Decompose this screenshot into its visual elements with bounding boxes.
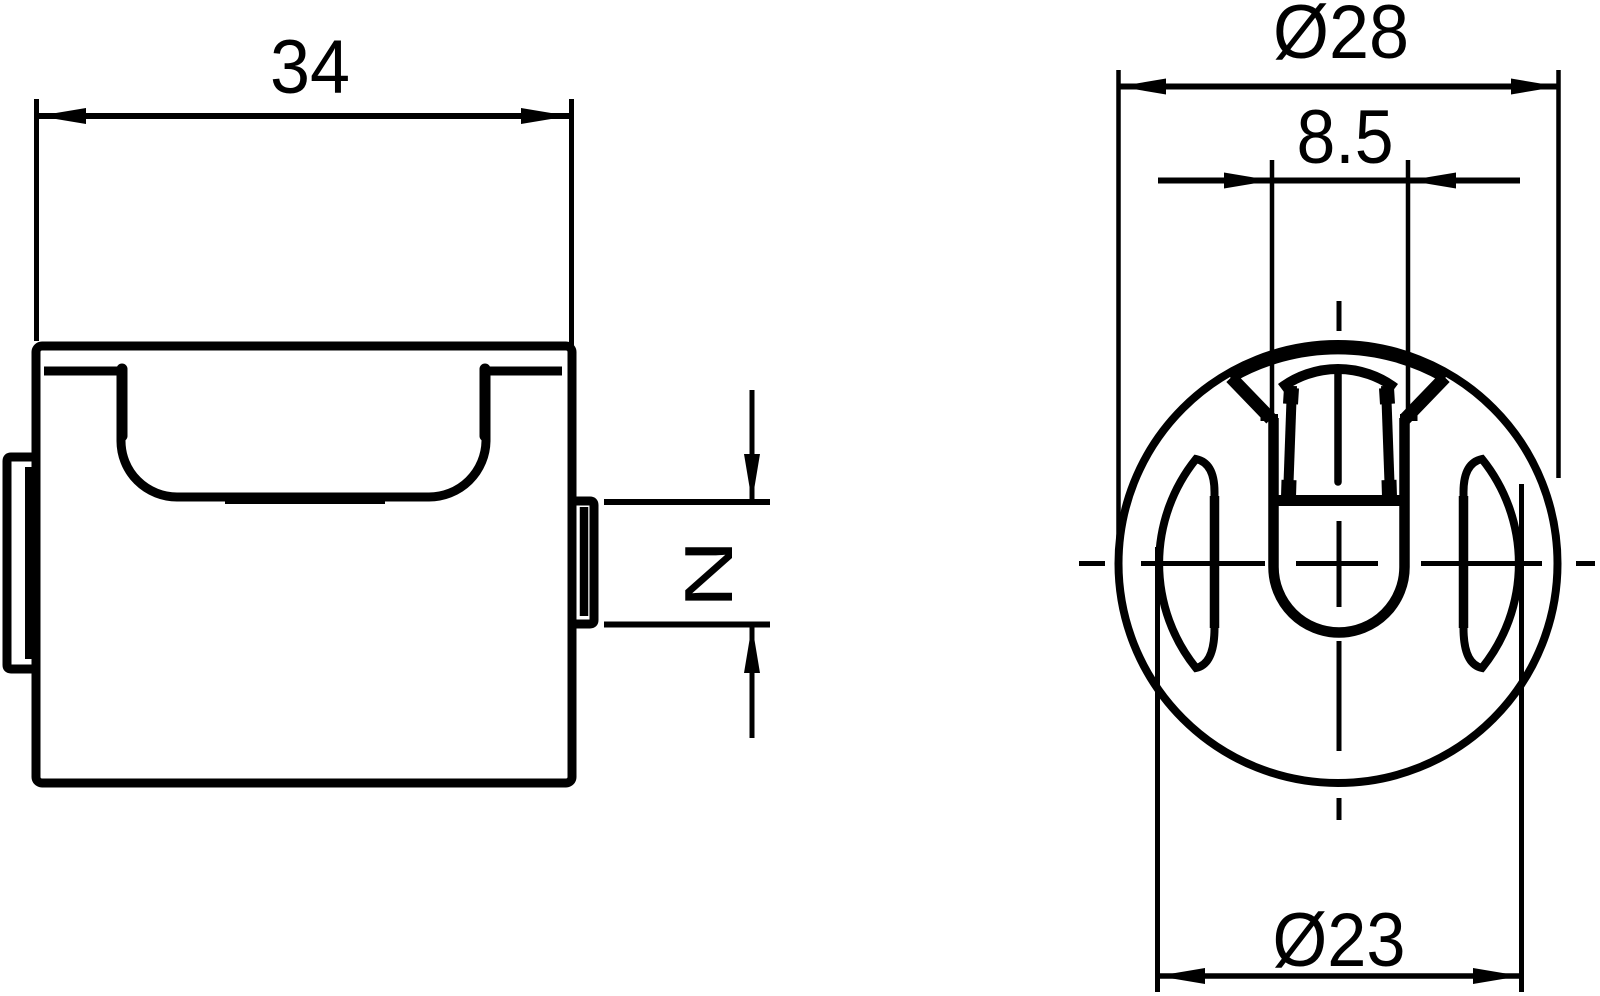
right slot inner edge emphasis (1459, 496, 1469, 628)
dim Ø23 dimension line (1158, 973, 1521, 979)
collet slit right head (1387, 388, 1388, 404)
collet slit left (1288, 386, 1292, 497)
recess step emphasis left (117, 369, 128, 436)
dim Ø28 arrow right (1511, 79, 1559, 95)
collet slit right (1386, 386, 1390, 497)
horizontal centerline dashes (1079, 561, 1595, 566)
body outline (side view) (36, 346, 572, 783)
collet chord line (1269, 495, 1409, 506)
right tab inner edge (580, 507, 589, 616)
recess profile in body (44, 371, 562, 497)
svg-text:Ø23: Ø23 (1273, 898, 1406, 983)
dim N dimension line upper (750, 390, 755, 502)
U slot walls and bottom (1274, 418, 1405, 633)
dim N extension line top (604, 499, 770, 505)
dim 34 arrow left (38, 108, 86, 124)
chamfer diagonal right (1405, 378, 1445, 420)
dim Ø23 extension line left (1155, 547, 1160, 992)
svg-text:8.5: 8.5 (1297, 95, 1394, 180)
dim 8.5 extension line right (1406, 160, 1411, 418)
dim Ø28 extension line left (1116, 70, 1121, 563)
collet slit left head (1291, 388, 1292, 404)
collet top arc (1281, 369, 1395, 388)
dim 8.5 extension line left (1270, 160, 1275, 418)
dim Ø28 dimension line (1119, 84, 1559, 90)
recess bottom thick segment (225, 496, 385, 504)
recess step emphasis right (480, 369, 491, 436)
main circle Ø28 outline (1119, 344, 1558, 783)
dim Ø23 arrow left (1158, 968, 1206, 984)
dim N arrow up (744, 625, 760, 673)
right curved slot (1464, 459, 1519, 668)
dim 34 dimension line (38, 113, 569, 119)
vertical centerline dashes (1337, 301, 1342, 820)
dim Ø23 arrow right (1473, 968, 1521, 984)
svg-text:34: 34 (270, 25, 350, 110)
dim 34 extension line left (34, 99, 39, 341)
dim 8.5 arrow pointing right (1224, 173, 1272, 189)
left tab outline (7, 457, 36, 669)
left slot inner edge emphasis (1210, 496, 1220, 628)
svg-text:N: N (671, 540, 747, 609)
dim 34 extension line right (569, 99, 574, 352)
dim N dimension line lower (750, 625, 755, 738)
left curved slot (1159, 459, 1214, 668)
svg-text:Ø28: Ø28 (1273, 0, 1409, 75)
collet slit right foot (1382, 480, 1398, 497)
countersink recess arc (1231, 350, 1445, 379)
collet slit left foot (1281, 480, 1297, 497)
dim N extension line bottom (604, 622, 770, 628)
slot wall top tick left (1261, 414, 1279, 421)
dim 8.5 arrow pointing left (1408, 173, 1456, 189)
dim Ø28 extension line right (1556, 70, 1561, 478)
dim Ø28 arrow left (1119, 79, 1167, 95)
chamfer diagonal left (1231, 378, 1271, 420)
dim N arrow down (744, 454, 760, 502)
slot wall top tick right (1400, 414, 1418, 421)
dim Ø23 extension line right (1519, 484, 1524, 992)
right tab outline (572, 501, 594, 624)
dim 34 arrow right (521, 108, 569, 124)
dim 8.5 dimension line (1158, 178, 1520, 184)
left tab inner edge (25, 467, 32, 659)
collet center slit (1334, 374, 1342, 482)
